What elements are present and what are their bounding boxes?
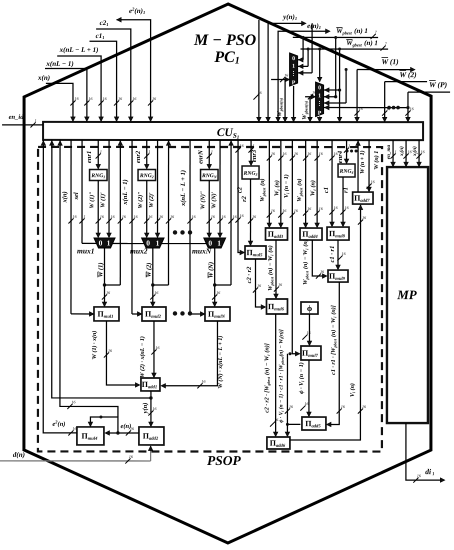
- wire input 3 elbow into CU bar: [57, 56, 101, 121]
- random number generator RNG2: [138, 169, 156, 180]
- svg-text:W (2)′: W (2)′: [148, 192, 155, 208]
- svg-text:16: 16: [132, 96, 136, 101]
- svg-text:16: 16: [159, 214, 163, 219]
- svg-text:Wpbest (n): Wpbest (n): [296, 178, 303, 201]
- svg-text:1: 1: [217, 239, 221, 248]
- wire x input into mul1: [71, 313, 93, 315]
- svg-text:16: 16: [408, 149, 412, 154]
- svg-text:W (P): W (P): [429, 80, 448, 89]
- wire W(N)'' from RNGN to muxN: [208, 180, 210, 236]
- wire x input into mulN: [190, 313, 204, 315]
- svg-text:mux2: mux2: [130, 246, 148, 255]
- wire en_id into CU bar: [2, 124, 43, 126]
- svg-text:16: 16: [282, 208, 286, 213]
- adder Pi_add7: [353, 192, 373, 204]
- svg-text:y(n)1: y(n)1: [282, 13, 297, 21]
- svg-text:1: 1: [100, 149, 102, 154]
- svg-text:0: 0: [292, 56, 295, 62]
- arrowhead e2(n)_1 output left: [117, 17, 122, 22]
- svg-text:W (2): W (2): [146, 263, 153, 278]
- svg-text:x(nL − L + 1): x(nL − L + 1): [180, 170, 187, 207]
- svg-text:W (2): W (2): [399, 70, 417, 79]
- svg-text:1: 1: [318, 93, 321, 99]
- wire mux B data inputs: [339, 49, 341, 121]
- svg-text:Wgbest(n): Wgbest(n): [302, 100, 308, 119]
- svg-text:16: 16: [233, 214, 237, 219]
- svg-text:Wpbest(n): Wpbest(n): [277, 97, 283, 116]
- svg-text:muxN: muxN: [192, 246, 212, 255]
- svg-text:0: 0: [318, 85, 321, 91]
- wire en_ma into MP: [392, 140, 394, 166]
- wire W(n+1) from add7 to CU: [357, 140, 359, 192]
- svg-text:1: 1: [348, 143, 350, 148]
- random number generator RNG3: [242, 166, 259, 179]
- svg-text:W (1) · x(n): W (1) · x(n): [91, 331, 98, 360]
- dots between W(2) and W(P): [387, 106, 391, 110]
- svg-text:P: P: [292, 80, 296, 86]
- svg-text:mux1: mux1: [77, 246, 95, 255]
- wire W(2) feedback to CU: [167, 140, 169, 285]
- svg-text:W (N)″: W (N)″: [200, 191, 207, 209]
- svg-text:16: 16: [410, 106, 414, 111]
- adder Pi_add3: [266, 228, 288, 240]
- wire aux vertical into CU bar: [258, 20, 260, 121]
- svg-text:16: 16: [129, 454, 133, 459]
- vertical mux 0..P (pbest): [290, 53, 298, 86]
- wire W(1) from mux1 to mul1: [103, 248, 105, 306]
- wire W(2) from mux2 to mul2: [152, 248, 154, 306]
- svg-text:16: 16: [271, 208, 275, 213]
- svg-text:1: 1: [253, 143, 255, 148]
- svg-text:Wi (n): Wi (n): [274, 180, 281, 196]
- wire tap input x(nL − 1): [131, 140, 133, 314]
- svg-text:16: 16: [334, 205, 338, 210]
- svg-text:Wpbest (n) − Wi (n): Wpbest (n) − Wi (n): [267, 245, 274, 291]
- multiplier Pi_mul7: [301, 346, 321, 360]
- multiplier Pi_mul2: [142, 307, 166, 321]
- wire W(N)' from CU to muxN: [219, 140, 221, 237]
- svg-text:16: 16: [222, 214, 226, 219]
- wire Wi(n) into add4: [316, 140, 318, 227]
- random number generator RNG1: [90, 169, 108, 180]
- wire Vi(n) from add6 up to add7: [290, 205, 361, 440]
- wire mux B select input: [305, 96, 315, 98]
- wire e(n) loop into mul4 top: [90, 417, 118, 433]
- wire y(n)_1: [268, 23, 304, 121]
- svg-text:16: 16: [156, 345, 160, 350]
- magnitude processor MP box: [387, 167, 428, 423]
- wire W(N) feedback to CU: [230, 140, 232, 285]
- svg-text:c21: c21: [100, 19, 109, 27]
- svg-text:enr4: enr4: [337, 150, 344, 163]
- svg-text:16: 16: [170, 214, 174, 219]
- wire Wpbest_i(n) into add4: [305, 140, 307, 227]
- random number generator RNG4: [338, 164, 355, 177]
- svg-text:16: 16: [307, 330, 311, 335]
- svg-text:c1 · r1: c1 · r1: [329, 246, 336, 263]
- dots near add7: [346, 150, 349, 153]
- adder Pi_add6: [267, 437, 290, 449]
- svg-text:16: 16: [342, 251, 346, 256]
- wire input 6 elbow into CU bar: [117, 20, 151, 121]
- svg-text:16: 16: [252, 214, 256, 219]
- svg-text:y(n): y(n): [142, 403, 149, 415]
- wire sel line to muxes: [81, 140, 83, 244]
- svg-text:⋮: ⋮: [317, 100, 323, 107]
- svg-text:16: 16: [319, 151, 323, 156]
- svg-text:1: 1: [292, 64, 295, 70]
- svg-text:16: 16: [111, 214, 115, 219]
- wire W(n)1 from CU into add7: [368, 140, 370, 191]
- wire y(n) from add1 to add2: [150, 391, 152, 426]
- svg-text:16: 16: [307, 206, 311, 211]
- svg-text:16: 16: [108, 348, 112, 353]
- wire y(n) feedback to CU: [52, 140, 151, 398]
- svg-text:16: 16: [278, 282, 282, 287]
- svg-text:Wpbest (n) 1: Wpbest (n) 1: [336, 27, 368, 35]
- svg-text:Wpbest (n): Wpbest (n): [259, 178, 266, 201]
- svg-text:sel: sel: [73, 192, 80, 200]
- svg-text:RNG2: RNG2: [139, 173, 154, 179]
- svg-text:c1 · r1 · [Wpbest (n) − Wi (: c1 · r1 · [Wpbest (n) − Wi (n)]: [330, 305, 337, 375]
- svg-text:x(n): x(n): [62, 191, 69, 203]
- svg-text:16: 16: [359, 106, 363, 111]
- weight mux muxN: [204, 238, 226, 248]
- svg-text:W (1): W (1): [97, 262, 104, 277]
- svg-text:16: 16: [154, 290, 158, 295]
- wire Wpbest line: [293, 36, 378, 38]
- svg-text:M − PSO: M − PSO: [193, 32, 257, 49]
- svg-text:1: 1: [84, 214, 86, 219]
- wire tap input x(n): [70, 140, 72, 314]
- wire xi(n) into MP: [405, 140, 407, 166]
- svg-text:16: 16: [341, 404, 345, 409]
- wire mulN output into add1: [162, 321, 218, 386]
- svg-text:1: 1: [35, 118, 37, 123]
- multiplier Pi_mul5: [245, 246, 266, 259]
- wire mul9 output into add5: [327, 282, 339, 424]
- svg-text:16: 16: [320, 269, 324, 274]
- wire c1r1 from mul8 to mul9: [337, 240, 339, 269]
- svg-text:16: 16: [417, 473, 421, 478]
- svg-text:ϕ · Vi (n − 1): ϕ · Vi (n − 1): [298, 362, 305, 394]
- wire c1 input: [331, 140, 333, 226]
- multiplier Pi_mul1: [94, 307, 119, 321]
- svg-text:16: 16: [289, 404, 293, 409]
- wire mux B input P from W(P): [324, 107, 408, 109]
- dots between mux2 and muxN: [173, 230, 177, 234]
- svg-text:16: 16: [153, 406, 157, 411]
- svg-text:e(n): e(n): [121, 423, 132, 430]
- wire input 1 elbow into CU bar: [46, 83, 73, 121]
- svg-text:di 1: di 1: [425, 467, 434, 476]
- svg-text:c2 · r2 · [Wgbest (n) − Wi (: c2 · r2 · [Wgbest (n) − Wi (n)]: [263, 343, 270, 413]
- svg-text:W (N): W (N): [208, 262, 215, 278]
- svg-text:x(nL − L + 1): x(nL − L + 1): [59, 46, 99, 54]
- svg-text:P: P: [318, 111, 322, 117]
- svg-text:W (2)″: W (2)″: [137, 191, 144, 208]
- wire input 2 elbow into CU bar: [45, 69, 87, 121]
- wire input 5 elbow into CU bar: [96, 29, 131, 121]
- svg-text:7: 7: [385, 41, 388, 46]
- phi coefficient box: [301, 302, 318, 314]
- svg-text:16: 16: [240, 213, 244, 218]
- svg-text:W (1)″: W (1)″: [89, 191, 96, 208]
- svg-text:1: 1: [107, 239, 111, 248]
- wire W(1) feedback to CU: [119, 140, 121, 285]
- wire Wpbest_i(n) into add3: [268, 140, 270, 227]
- wire mux A select input: [271, 79, 289, 81]
- wire W(1)'' from RNG1 to mux1: [97, 180, 99, 237]
- svg-text:ϕ · Vi (n − 1) · c1 · r1 · [Wp: ϕ · Vi (n − 1) · c1 · r1 · [Wpbest(n) − …: [278, 329, 285, 423]
- svg-text:⋮: ⋮: [291, 70, 297, 77]
- svg-text:16: 16: [319, 206, 323, 211]
- svg-text:1: 1: [148, 149, 150, 154]
- wire mul7 output into add5: [308, 360, 310, 416]
- svg-text:16: 16: [345, 205, 349, 210]
- wire add5 output to add6 via x=287.5: [287, 423, 300, 425]
- svg-text:16: 16: [118, 96, 122, 101]
- svg-text:16: 16: [72, 399, 76, 404]
- svg-text:16: 16: [258, 90, 262, 95]
- svg-text:16: 16: [106, 290, 110, 295]
- svg-text:W (1): W (1): [382, 57, 400, 66]
- svg-text:Vi (n): Vi (n): [349, 383, 356, 397]
- svg-text:MP: MP: [396, 287, 418, 302]
- wire e(n) feedback to CU: [60, 140, 118, 417]
- svg-text:c11: c11: [96, 32, 105, 40]
- multiplier Pi_mul9: [328, 270, 348, 282]
- svg-text:16: 16: [294, 208, 298, 213]
- svg-text:16: 16: [211, 214, 215, 219]
- svg-text:0: 0: [99, 239, 103, 248]
- wire enr1: [97, 140, 99, 169]
- svg-text:enr1: enr1: [86, 151, 93, 163]
- svg-text:1: 1: [211, 149, 213, 154]
- wire W(P): [408, 91, 450, 93]
- vertical mux 0..P (gbest): [316, 82, 324, 117]
- control unit CU_S1 bar: [43, 122, 423, 140]
- adder Pi_add5: [302, 417, 326, 430]
- wire r1 from RNG4 to mul8: [342, 177, 344, 226]
- svg-text:W (n + 1): W (n + 1): [359, 150, 366, 174]
- svg-text:7: 7: [375, 29, 378, 34]
- svg-text:e(n)1: e(n)1: [307, 22, 321, 30]
- svg-text:r1: r1: [343, 187, 350, 193]
- wire W(N) from muxN to mulN: [214, 248, 216, 306]
- svg-text:c2 · r2: c2 · r2: [246, 266, 253, 284]
- svg-text:16: 16: [307, 151, 311, 156]
- wire Wgbest line: [300, 48, 388, 50]
- svg-text:Vi (n − 1): Vi (n − 1): [283, 174, 290, 198]
- svg-text:x(nL − 1): x(nL − 1): [45, 60, 73, 68]
- svg-text:1: 1: [156, 239, 160, 248]
- wire phi output into mul7: [308, 314, 310, 345]
- svg-text:xj(n): xj(n): [411, 146, 418, 157]
- svg-text:16: 16: [192, 214, 196, 219]
- multiplier Pi_mul4: [77, 427, 104, 445]
- svg-text:16: 16: [421, 149, 425, 154]
- svg-text:PSOP: PSOP: [207, 453, 242, 468]
- wire W(2): [385, 81, 427, 83]
- wire e2(n) from mul4 to CU: [43, 140, 77, 433]
- adder Pi_add1: [141, 378, 160, 391]
- svg-text:W (1)′: W (1)′: [100, 192, 107, 208]
- svg-text:c2: c2: [237, 186, 244, 193]
- svg-text:e2(n): e2(n): [52, 419, 65, 428]
- wire mux outputs into CU bar: [293, 86, 295, 121]
- adder Pi_add4: [300, 228, 322, 240]
- wire mux A data inputs: [302, 37, 304, 59]
- svg-text:16: 16: [305, 401, 309, 406]
- svg-text:16: 16: [148, 214, 152, 219]
- wire e(n)_1: [278, 31, 328, 121]
- wire enr3: [250, 140, 252, 165]
- wire Wpbest(n) into CU bar: [284, 80, 286, 121]
- weight mux mux1: [94, 238, 115, 248]
- dots between mul2 and mulN: [173, 311, 177, 315]
- wire enr4: [346, 140, 348, 163]
- svg-text:16: 16: [362, 215, 366, 220]
- wire c2r2 from mul5 to mul6: [255, 259, 265, 307]
- svg-text:xi(n): xi(n): [398, 146, 405, 157]
- svg-text:x(n): x(n): [37, 74, 50, 82]
- svg-text:enr2: enr2: [135, 150, 142, 163]
- svg-text:Wpbest (n) − Wi (n): Wpbest (n) − Wi (n): [302, 239, 309, 285]
- wire W(2)' from CU to mux2: [157, 140, 159, 237]
- random number generator RNGN: [201, 169, 219, 180]
- wire W(1): [357, 69, 413, 71]
- svg-text:16: 16: [284, 73, 288, 78]
- svg-text:16: 16: [371, 179, 375, 184]
- svg-text:W (2) · x(nL − 1): W (2) · x(nL − 1): [139, 336, 146, 378]
- svg-text:16: 16: [88, 96, 92, 101]
- wire d(n) input: [0, 460, 151, 462]
- wire mul2 output into add1: [153, 321, 155, 377]
- wire e(n) from add2 to mul4: [106, 432, 139, 434]
- wire mux B top input: [319, 49, 321, 81]
- svg-text:16: 16: [103, 96, 107, 101]
- svg-text:ϕ: ϕ: [307, 303, 312, 313]
- svg-text:x(nL − 1): x(nL − 1): [122, 179, 129, 205]
- multiplier Pi_mul6: [266, 299, 287, 314]
- wire W(2)'' from RNG2 to mux2: [146, 180, 148, 237]
- svg-text:16: 16: [282, 151, 286, 156]
- svg-text:16: 16: [73, 214, 77, 219]
- svg-text:16: 16: [122, 214, 126, 219]
- svg-text:RNG1: RNG1: [90, 173, 105, 179]
- multiplier Pi_mul8: [327, 227, 349, 240]
- svg-text:16: 16: [271, 151, 275, 156]
- svg-text:Wi (n): Wi (n): [310, 180, 317, 196]
- svg-text:RNG4: RNG4: [339, 169, 354, 175]
- svg-text:r2: r2: [241, 195, 248, 202]
- multiplier Pi_mulN: [205, 307, 230, 321]
- svg-text:en_ma: en_ma: [386, 144, 392, 159]
- svg-text:PC1: PC1: [213, 49, 239, 67]
- svg-text:16: 16: [216, 290, 220, 295]
- svg-text:16: 16: [294, 151, 298, 156]
- wire tap input x(nL − L + 1): [189, 140, 191, 314]
- wire xj(n) into MP: [418, 140, 420, 166]
- svg-text:enr3: enr3: [251, 149, 258, 162]
- wire x input into mul2: [132, 313, 141, 315]
- wire mul6 output into add6: [275, 314, 277, 436]
- svg-text:16: 16: [75, 96, 79, 101]
- svg-text:16: 16: [134, 214, 138, 219]
- wire Vi(n-1) input: [292, 140, 299, 354]
- wire c2 input: [238, 140, 244, 253]
- wire input 4 elbow into CU bar: [89, 41, 116, 121]
- wire di_1 output: [406, 423, 443, 480]
- wire W(1)' from CU to mux1: [108, 140, 110, 237]
- svg-text:e2(n)1: e2(n)1: [129, 6, 145, 15]
- svg-text:16: 16: [240, 143, 244, 148]
- wire enr2: [146, 140, 148, 168]
- svg-text:16: 16: [362, 404, 366, 409]
- svg-text:16: 16: [152, 96, 156, 101]
- svg-text:c1: c1: [323, 187, 330, 193]
- svg-text:16: 16: [100, 214, 104, 219]
- svg-text:en_id: en_id: [9, 114, 25, 121]
- svg-text:Wgbest (n) 1: Wgbest (n) 1: [346, 39, 378, 47]
- svg-text:W (n) 1: W (n) 1: [373, 151, 380, 170]
- wire r2 from RNG3 to mul5: [250, 179, 252, 245]
- svg-text:16: 16: [257, 283, 261, 288]
- wire add4 output into mul9: [312, 240, 326, 276]
- svg-text:1: 1: [395, 149, 397, 154]
- svg-text:16: 16: [73, 426, 77, 431]
- svg-text:d(n): d(n): [13, 451, 25, 459]
- wire enrN: [208, 140, 210, 169]
- wire Wgbest(n) into CU bar: [309, 97, 311, 121]
- wire Wi(n) into add3: [280, 140, 282, 227]
- wire add3 output into mul6: [275, 240, 277, 298]
- weight mux mux2: [142, 238, 164, 248]
- svg-text:enrN: enrN: [198, 150, 205, 164]
- svg-text:RNG3: RNG3: [243, 171, 258, 177]
- wire mul1 output into add1: [106, 321, 139, 385]
- svg-text:16: 16: [202, 379, 206, 384]
- svg-text:16: 16: [312, 90, 316, 95]
- svg-text:W (N)′: W (N)′: [211, 191, 218, 208]
- dashed PSOP region box: [38, 147, 382, 452]
- adder Pi_add2: [139, 427, 164, 445]
